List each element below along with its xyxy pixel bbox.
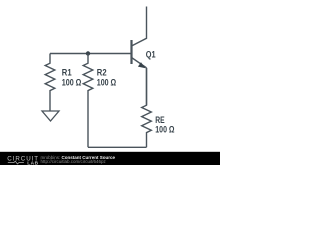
svg-text:100 Ω: 100 Ω: [155, 124, 174, 134]
ground: [42, 111, 59, 121]
label R1 value: [62, 68, 82, 88]
svg-text:http://circuitlab.com/circuit/: http://circuitlab.com/circuit/646pz: [41, 159, 107, 164]
svg-text:R2: R2: [97, 68, 107, 78]
transistor Q1 base bar: [130, 40, 132, 64]
wire: emitter down to RE: [146, 68, 148, 105]
resistor R2: [83, 54, 93, 148]
svg-text:LAB: LAB: [27, 161, 39, 166]
svg-text:100 Ω: 100 Ω: [62, 78, 82, 88]
label RE value: [155, 115, 174, 134]
wire: bottom from R2 to RE: [88, 146, 147, 148]
node junction at R2 top: [86, 51, 90, 55]
transistor Q1 emitter: [132, 58, 147, 68]
label R2 value: [97, 68, 116, 88]
resistor RE: [142, 68, 152, 147]
logo wave + LAB: [8, 161, 24, 164]
resistor R1: [45, 54, 55, 112]
footer bar: [0, 152, 220, 165]
transistor Q1 collector: [132, 7, 147, 47]
transistor Q1 emitter arrow: [138, 62, 146, 68]
svg-text:100 Ω: 100 Ω: [97, 78, 116, 88]
svg-text:R1: R1: [62, 68, 72, 78]
wire: top rail from R1 to Q1 base: [50, 53, 132, 55]
svg-text:Q1: Q1: [146, 49, 156, 60]
